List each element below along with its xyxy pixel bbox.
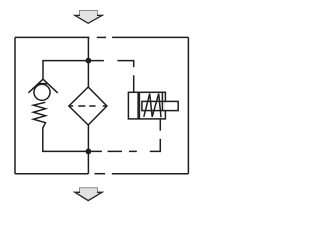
- check valve seat legs: [28, 79, 57, 93]
- white patch over chamber wall inside pin: [165, 102, 177, 110]
- filter element diamond: [69, 87, 107, 125]
- enclosure top edge (solid left part): [15, 36, 89, 38]
- wire: bypass branch bottom: [43, 128, 89, 151]
- inlet wire: [87, 37, 89, 87]
- bottom flow arrow: [75, 188, 102, 201]
- enclosure top edge dash: [97, 36, 106, 38]
- wire: bypass branch top: [43, 61, 88, 80]
- node: outlet junction dot: [86, 149, 92, 155]
- node: inlet junction dot: [86, 58, 92, 64]
- outlet wire: [87, 125, 89, 174]
- enclosure top edge (solid right part): [112, 36, 188, 38]
- check valve seat base: [38, 83, 48, 85]
- check valve ball: [34, 84, 50, 100]
- enclosure left edge: [14, 37, 16, 173]
- bypass spring: [33, 102, 45, 128]
- top flow arrow: [75, 11, 102, 24]
- pilot line top (dashed): [88, 61, 133, 93]
- enclosure bottom edge (solid left part): [15, 173, 89, 175]
- enclosure bottom edge dash: [95, 173, 106, 175]
- indicator port block: [128, 92, 138, 119]
- indicator piston plate: [161, 92, 163, 110]
- indicator pin rod: [142, 101, 178, 110]
- enclosure right edge: [187, 37, 189, 173]
- indicator chamber: [139, 92, 165, 119]
- enclosure bottom edge (solid right part): [112, 173, 189, 175]
- filter mesh dashed line: [69, 105, 107, 107]
- pilot line bottom (dashed): [88, 119, 160, 151]
- indicator spring: [144, 94, 161, 118]
